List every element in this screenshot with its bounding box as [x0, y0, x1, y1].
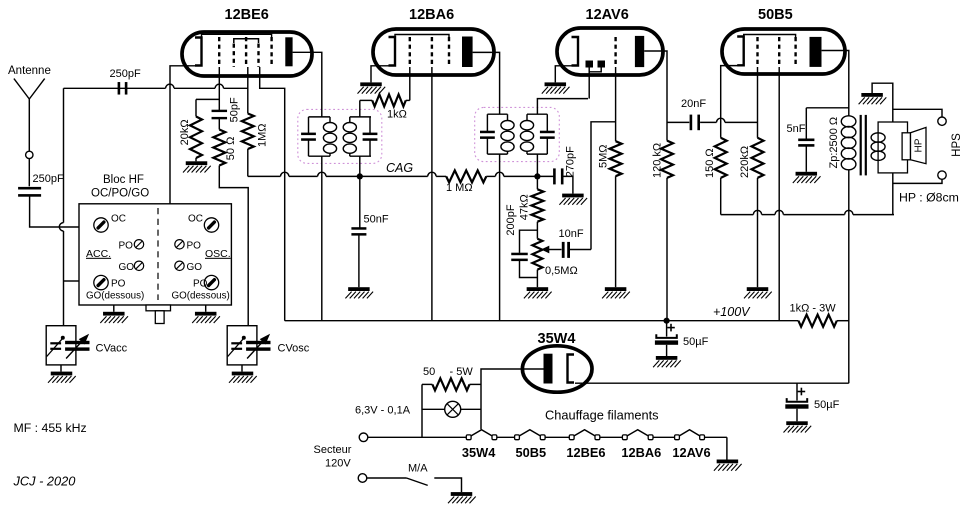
- tube 12BE6 grid g1: [218, 37, 220, 67]
- wire speaker frame top to ground bracket: [872, 83, 893, 122]
- tube 12BE6 grid g2: [233, 44, 235, 68]
- wire B+ rail +100V: [285, 305, 799, 321]
- filament 35W4: [466, 430, 497, 440]
- svg-text:12BA6: 12BA6: [409, 7, 454, 23]
- svg-text:- 5W: - 5W: [450, 366, 474, 378]
- capacitor 20nF: [667, 98, 706, 130]
- wire 220k to ground: [757, 178, 759, 287]
- wire IF2 secondary bottom to detector node: [536, 154, 538, 176]
- svg-text:12BE6: 12BE6: [225, 7, 269, 23]
- tube 50B5 cathode: [737, 37, 744, 66]
- terminal Secteur top: [359, 433, 368, 442]
- IF2 secondary coil: [520, 114, 533, 154]
- svg-text:20nF: 20nF: [681, 98, 706, 110]
- svg-text:OC: OC: [111, 214, 126, 225]
- svg-text:20kΩ: 20kΩ: [179, 119, 191, 145]
- label Chauffage filaments: [545, 408, 659, 423]
- wire HPS bottom terminal: [893, 173, 942, 215]
- tube 12AV6 cathode: [572, 37, 579, 66]
- tube 35W4 envelope: [522, 331, 592, 392]
- svg-text:10nF: 10nF: [559, 228, 584, 240]
- wire 120k to B+ rail: [666, 178, 668, 321]
- wire 50uF2 to ground: [796, 409, 798, 422]
- wire 12AV6 plate down: [644, 51, 667, 141]
- wire AGC node down to 50nF: [359, 176, 361, 227]
- Bloc HF right ground: [192, 305, 220, 323]
- tube 12BE6 envelope: [182, 7, 312, 76]
- node detector junction: [534, 173, 540, 179]
- IF1 primary top rail: [309, 116, 331, 118]
- wire 12BA6 cathode to ground: [371, 66, 395, 83]
- wire 35W4 cathode line: [575, 382, 849, 384]
- wire 12BE6 cathode to Bloc HF: [170, 66, 202, 204]
- tube 12BA6 grid g1: [409, 37, 411, 67]
- tube 50B5 internal top line: [744, 35, 796, 38]
- svg-text:120V: 120V: [325, 458, 351, 470]
- terminal HPS bottom: [938, 171, 946, 179]
- tube 12BE6 g2-g4 bracket: [234, 39, 259, 43]
- wire 10nF to grid node: [591, 122, 616, 250]
- wire 35W4 plate lead: [481, 369, 544, 429]
- wire 47k to potentiometer: [536, 222, 538, 239]
- wire IF2 secondary top to diodes: [537, 99, 588, 115]
- IF transformer 1 can outline: [298, 109, 382, 163]
- Bloc HF OSC OC trimmer: [188, 214, 219, 233]
- resistor 1kOhm - 3W: [790, 303, 837, 327]
- tube 12AV6 diode plate 2: [598, 61, 606, 68]
- IF2 primary coil: [501, 114, 514, 154]
- wire IF1 secondary bottom to AGC node: [359, 156, 361, 176]
- wire 12BE6 g3 down to 1M: [247, 67, 249, 114]
- svg-text:50pF: 50pF: [229, 97, 241, 122]
- wire IF1 secondary top to 1k: [360, 100, 372, 117]
- svg-text:5nF: 5nF: [787, 123, 806, 135]
- wire pot to ground: [536, 270, 538, 288]
- svg-text:HP: HP: [914, 138, 925, 152]
- wire 12BE6 plate to IF1 primary: [293, 52, 322, 117]
- speaker driver: [902, 133, 910, 160]
- svg-text:50µF: 50µF: [814, 399, 840, 411]
- ground 270pF: [559, 194, 587, 205]
- wire 50pF to 50ohm: [218, 118, 220, 130]
- Bloc HF ACC PO trimmer symbol: [119, 240, 144, 252]
- transformer core: [861, 115, 866, 175]
- resistor 220kOhm: [739, 138, 764, 178]
- svg-text:1kΩ: 1kΩ: [387, 109, 407, 121]
- svg-text:50B5: 50B5: [516, 445, 547, 460]
- svg-text:GO(dessous): GO(dessous): [86, 291, 144, 302]
- tube 12BA6 grid g2: [431, 37, 433, 67]
- svg-text:CVacc: CVacc: [96, 343, 128, 355]
- svg-text:12BA6: 12BA6: [621, 445, 661, 460]
- filament 50B5: [515, 430, 546, 440]
- wire 1M to CAG corner: [247, 149, 249, 176]
- ground 5MOhm: [602, 287, 630, 298]
- IF transformer 2 can outline: [475, 107, 560, 161]
- resistor 1MOhm (grid): [242, 114, 269, 150]
- resistor 50 Ohm: [213, 130, 237, 166]
- wire 50B5 screen to B+ rail: [778, 67, 780, 321]
- Bloc HF OSC PO trimmer symbol: [175, 240, 201, 252]
- capacitor 5nF: [787, 108, 849, 147]
- potentiometer 0,5MOhm: [532, 239, 577, 277]
- wire 20nF to 50B5 grid line: [700, 118, 757, 122]
- wire 1k to 12BA6 g1: [406, 67, 410, 100]
- tube 12BE6 cathode: [195, 38, 202, 66]
- wire IF2 primary bottom to B+ rail: [499, 154, 501, 321]
- ground switch: [448, 492, 476, 503]
- tube 12AV6 diode plate 1: [586, 61, 594, 68]
- resistor 47kOhm: [519, 176, 544, 221]
- tube 50B5 grid g1: [756, 37, 758, 67]
- tube 12BA6 cathode: [389, 37, 396, 66]
- capacitor 10nF: [559, 228, 592, 258]
- node B+ filter junction: [664, 318, 670, 324]
- wire HPS top terminal: [893, 109, 942, 117]
- capacitor 270pF: [537, 146, 576, 194]
- capacitor 50pF: [212, 97, 241, 122]
- Bloc HF ACC label: [86, 248, 111, 260]
- tube 35W4 plate: [544, 354, 553, 384]
- IF2 secondary bottom rail: [527, 153, 547, 155]
- label Secteur 120V: [314, 444, 352, 470]
- wire 50B5 cathode down: [721, 66, 744, 138]
- resistor 20kOhm: [179, 117, 202, 159]
- wire 50uF1 to ground: [666, 345, 668, 356]
- IF1 secondary top rail: [350, 116, 371, 118]
- svg-text:MF : 455 kHz: MF : 455 kHz: [14, 421, 87, 435]
- wire 50B5 plate to transformer: [822, 51, 849, 117]
- svg-text:50µF: 50µF: [683, 336, 709, 348]
- IF2 secondary tuning capacitor: [540, 114, 555, 154]
- wire g1 tap to 20k: [196, 99, 219, 116]
- svg-text:50: 50: [423, 366, 435, 378]
- ground 12AV6 cathode: [542, 82, 570, 93]
- svg-text:CVosc: CVosc: [278, 343, 310, 355]
- wire 12AV6 diode plates join: [589, 68, 601, 99]
- filament 12AV6: [675, 430, 705, 440]
- wire 12AV6 cathode to ground: [555, 66, 578, 83]
- antenna terminal circle: [26, 151, 33, 158]
- svg-text:47kΩ: 47kΩ: [519, 194, 531, 220]
- wire AGC resistor to detector node: [486, 172, 537, 176]
- wire primary bottom down to B+ feed: [848, 170, 850, 384]
- Bloc HF ACC GO trimmer symbol: [119, 261, 144, 273]
- Bloc HF OSC GO trimmer symbol: [175, 261, 202, 273]
- wire lamp branch left: [421, 384, 423, 437]
- wire 5nF to ground: [805, 146, 807, 171]
- label filament 50B5: [516, 445, 547, 460]
- label JCJ 2020: [13, 474, 77, 489]
- wire 50B5 g1 down: [757, 67, 759, 138]
- svg-text:PO: PO: [111, 278, 126, 289]
- svg-text:1 MΩ: 1 MΩ: [446, 182, 473, 194]
- svg-text:35W4: 35W4: [538, 331, 576, 347]
- svg-text:OC/PO/GO: OC/PO/GO: [91, 188, 149, 200]
- filament 12BE6: [569, 430, 600, 440]
- svg-text:GO(dessous): GO(dessous): [172, 291, 230, 302]
- wire 12BE6 g1 down: [218, 67, 220, 111]
- node AGC junction at IF1: [357, 173, 363, 179]
- wire 150ohm to feedback rail: [720, 178, 722, 215]
- svg-text:ACC.: ACC.: [86, 248, 111, 260]
- IF1 primary bottom rail: [309, 155, 331, 157]
- capacitor 50uF (output filter): [655, 321, 709, 348]
- svg-text:Bloc HF: Bloc HF: [103, 174, 144, 186]
- tube 50B5 grid g2: [778, 37, 780, 67]
- svg-text:250pF: 250pF: [33, 173, 64, 185]
- resistor 1kOhm: [372, 94, 407, 120]
- svg-text:1kΩ - 3W: 1kΩ - 3W: [790, 303, 837, 315]
- label filament 12BE6: [566, 445, 605, 460]
- wire 12BE6 screen to B+ rail: [260, 67, 285, 321]
- Bloc HF ACC GO dessous: [86, 291, 144, 302]
- wire antenna cap to Bloc HF: [30, 196, 79, 227]
- wire branch into Bloc HF left: [64, 280, 80, 282]
- Bloc HF OSC label: [205, 248, 231, 260]
- IF1 primary coil: [323, 117, 336, 156]
- svg-text:PO: PO: [119, 241, 134, 252]
- svg-text:50B5: 50B5: [758, 7, 793, 23]
- antenna symbol: [8, 65, 51, 151]
- ground 5nF: [793, 172, 821, 183]
- Bloc HF shaft: [146, 305, 171, 324]
- wire 50nF to ground: [358, 235, 360, 287]
- label filament 35W4: [462, 445, 496, 460]
- svg-text:HPS: HPS: [951, 133, 963, 157]
- tube 50B5 envelope: [722, 7, 845, 74]
- filament 12BA6: [622, 430, 653, 440]
- capacitor 50uF (input filter): [785, 383, 839, 411]
- svg-text:CAG: CAG: [386, 161, 413, 175]
- switch M/A: [367, 463, 462, 493]
- svg-text:Chauffage filaments: Chauffage filaments: [545, 408, 659, 423]
- resistor 120kOhm: [652, 141, 674, 178]
- IF2 secondary top rail: [527, 113, 547, 115]
- wire heater chain to ground: [726, 437, 728, 459]
- svg-text:GO: GO: [187, 262, 203, 273]
- wire heater chain: [368, 436, 727, 438]
- Bloc HF ACC PO2 trimmer: [94, 275, 126, 289]
- ground 50nF: [345, 287, 373, 298]
- label MF 455kHz: [14, 421, 87, 435]
- svg-text:12AV6: 12AV6: [672, 445, 710, 460]
- Bloc HF OSC PO2 trimmer: [193, 275, 219, 289]
- svg-text:250pF: 250pF: [110, 68, 141, 80]
- label filament 12BA6: [621, 445, 661, 460]
- ground 50uF input filter: [784, 421, 812, 432]
- capacitor 200pF: [505, 204, 538, 277]
- svg-text:200pF: 200pF: [505, 204, 517, 235]
- svg-text:6,3V - 0,1A: 6,3V - 0,1A: [355, 405, 411, 417]
- ground heater chain: [714, 460, 742, 471]
- wire CAG line right part: [360, 172, 446, 176]
- svg-text:OC: OC: [188, 214, 203, 225]
- Bloc HF divider: [157, 208, 159, 300]
- svg-text:50nF: 50nF: [364, 214, 389, 226]
- svg-text:Secteur: Secteur: [314, 444, 352, 456]
- tube 12BA6 grid g3: [448, 37, 450, 67]
- label HP size: [899, 191, 959, 205]
- svg-text:Antenne: Antenne: [8, 65, 51, 77]
- wire 50ohm to CVosc feed: [219, 166, 248, 326]
- svg-text:5MΩ: 5MΩ: [598, 144, 610, 168]
- label HPS: [951, 133, 963, 157]
- svg-text:12BE6: 12BE6: [566, 445, 605, 460]
- svg-text:HP : Ø8cm: HP : Ø8cm: [899, 191, 959, 205]
- tube 12BA6 plate: [462, 37, 473, 68]
- wire antenna to series cap: [28, 159, 30, 187]
- Bloc HF ACC OC trimmer: [94, 214, 126, 233]
- resistor 50 Ohm - 5W: [422, 366, 481, 390]
- transformer primary coil Zp:2500: [828, 116, 856, 170]
- tube 50B5 grid g3: [794, 37, 796, 67]
- svg-text:+100V: +100V: [713, 305, 751, 319]
- ground speaker circuit: [859, 93, 887, 104]
- wire CAG line: [248, 161, 414, 176]
- tube 12BE6 grid g5: [270, 37, 272, 67]
- lamp 6,3V - 0,1A: [355, 401, 481, 417]
- svg-text:GO: GO: [119, 262, 135, 273]
- capacitor 250pF (top coupling): [110, 68, 141, 95]
- svg-text:OSC.: OSC.: [205, 248, 231, 260]
- transformer secondary coil: [871, 133, 885, 161]
- svg-text:150 Ω: 150 Ω: [704, 148, 716, 178]
- terminal HPS top: [938, 117, 946, 125]
- tube 12AV6 envelope: [557, 7, 663, 75]
- terminal Secteur bottom: [358, 474, 367, 483]
- wire 12AV6 g1 down: [615, 67, 617, 141]
- wire left drop to CVacc: [59, 88, 63, 325]
- svg-text:JCJ - 2020: JCJ - 2020: [13, 474, 77, 489]
- wire 12BA6 screen to B+ rail: [431, 67, 433, 321]
- IF1 secondary tuning capacitor: [363, 117, 378, 156]
- wire 12BA6 plate to IF2 primary: [473, 52, 500, 114]
- Bloc HF box: [79, 174, 231, 305]
- capacitor 50nF: [351, 214, 388, 236]
- svg-text:270pF: 270pF: [565, 146, 577, 177]
- IF2 primary tuning capacitor: [480, 114, 495, 154]
- wire 5M to ground: [615, 176, 617, 287]
- variable capacitor CVosc: [227, 326, 310, 383]
- tube 12AV6 plate: [635, 36, 644, 67]
- ground potentiometer: [524, 287, 552, 298]
- Bloc HF left ground: [100, 305, 128, 323]
- svg-text:50 Ω: 50 Ω: [225, 137, 237, 161]
- svg-text:12AV6: 12AV6: [586, 7, 629, 23]
- variable capacitor CVacc: [46, 326, 127, 383]
- potentiometer wiper arrow: [542, 246, 561, 252]
- label filament 12AV6: [672, 445, 710, 460]
- wire 1k3W to raw B+: [837, 320, 849, 322]
- tube 50B5 plate: [810, 37, 822, 67]
- speaker HP cone: [911, 127, 927, 163]
- ground 50uF output filter: [653, 356, 681, 367]
- svg-text:220kΩ: 220kΩ: [739, 146, 751, 178]
- ground 20kOhm: [183, 158, 211, 173]
- wire feedback rail y214: [721, 210, 894, 214]
- IF1 secondary bottom rail: [350, 155, 371, 157]
- svg-text:35W4: 35W4: [462, 445, 496, 460]
- tube 12BA6 internal top line: [395, 35, 449, 38]
- svg-text:0,5MΩ: 0,5MΩ: [545, 265, 578, 277]
- resistor 1 MOhm (AGC): [446, 170, 486, 194]
- resistor 150 Ohm: [704, 138, 727, 178]
- IF1 primary tuning capacitor: [301, 117, 316, 156]
- svg-text:120 kΩ: 120 kΩ: [652, 143, 664, 178]
- wire top signal rail y88 with hops: [64, 84, 248, 88]
- IF1 secondary coil: [343, 117, 356, 156]
- wire IF1 primary bottom to B+ rail: [321, 156, 323, 321]
- tube 12BE6 plate: [285, 37, 292, 66]
- ground 12BA6 cathode: [358, 82, 386, 93]
- tube 12BE6 grid g3: [245, 37, 247, 67]
- svg-text:1MΩ: 1MΩ: [257, 123, 269, 147]
- tube 35W4 cathode: [568, 355, 575, 383]
- ground 220kOhm: [744, 287, 772, 298]
- Bloc HF OSC GO dessous: [172, 291, 230, 302]
- tube 12BE6 internal top line (cathode to g5): [202, 34, 272, 37]
- IF2 primary bottom rail: [487, 153, 507, 155]
- tube 12BA6 envelope: [373, 7, 494, 75]
- svg-text:M/A: M/A: [408, 463, 428, 475]
- tube 12AV6 grid: [614, 37, 616, 67]
- speaker frame: [878, 122, 907, 173]
- resistor 5MOhm: [598, 141, 622, 176]
- tube 12BE6 grid g4: [257, 44, 259, 68]
- svg-text:Zp:2500 Ω: Zp:2500 Ω: [828, 117, 840, 169]
- IF2 primary top rail: [487, 113, 507, 115]
- svg-text:PO: PO: [187, 241, 202, 252]
- capacitor 250pF (antenna series): [18, 173, 64, 197]
